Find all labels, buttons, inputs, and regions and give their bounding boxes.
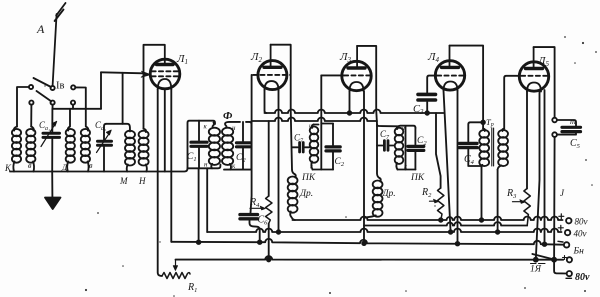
switch 1Я dot left xyxy=(534,258,538,262)
switch arm bottom xyxy=(37,91,52,101)
wire: top-left contact to coil K xyxy=(17,87,29,127)
capacitor C7 of PK2 (series) xyxy=(377,129,394,150)
wire: secondary bottom to bus C xyxy=(497,170,499,233)
terminal -Бн xyxy=(558,240,563,243)
bus 4 (switched -80v rail) xyxy=(176,256,564,260)
bus B (mid rail) xyxy=(364,222,527,226)
svg-text:Iв: Iв xyxy=(56,81,64,92)
band filter block 1 frame xyxy=(188,121,216,169)
wire: PK1 right frame riser to Л3 grid xyxy=(320,75,322,169)
svg-text:C3: C3 xyxy=(413,104,424,116)
wire: primary bottom to bus A xyxy=(481,166,483,220)
svg-text:н: н xyxy=(204,161,208,169)
wire: Л2 cathode left leg to rail H1 xyxy=(265,90,267,113)
coil D (pair 2 left) xyxy=(61,109,75,172)
switch 1Я arm xyxy=(532,254,554,260)
svg-text:C2: C2 xyxy=(335,157,345,168)
resistor R1 (horizontal, with wiper) xyxy=(162,260,197,294)
wire: Л5 heater mid leg down to bus D xyxy=(544,90,546,244)
junction dot R2 bottom xyxy=(439,218,443,222)
switch 1Я dot right (pivot) xyxy=(552,258,556,262)
coil of block 2 xyxy=(222,123,236,170)
junction dot xyxy=(496,230,500,234)
svg-text:ПК: ПК xyxy=(301,173,316,183)
resistor R2 xyxy=(421,187,444,220)
coupling bar above M coil xyxy=(106,124,130,132)
switch 1v contact top-right xyxy=(71,85,75,89)
svg-text:R3: R3 xyxy=(506,188,517,200)
wire: PK2 bottom bar xyxy=(398,169,416,171)
svg-text:Л5: Л5 xyxy=(537,55,549,68)
transformer Tr core xyxy=(492,128,494,166)
wire: tee down to coupling bar xyxy=(122,73,124,124)
capacitor C1 xyxy=(187,121,207,169)
wire: PK1 top bar xyxy=(314,124,334,125)
svg-text:80v: 80v xyxy=(575,272,590,283)
bus C (+40v rail) xyxy=(207,229,561,232)
resistor R4 with arrow (grid leak) xyxy=(249,121,272,224)
junction dot xyxy=(480,218,484,222)
svg-text:R1: R1 xyxy=(187,282,197,294)
junction dot xyxy=(197,240,201,244)
switch 1v contact bottom-right xyxy=(71,101,75,105)
capacitor C4 across primary xyxy=(460,122,484,166)
coil of PK1 xyxy=(309,123,318,171)
wire: Л1 cathode leg right to bus start xyxy=(170,90,172,242)
terminal +40v xyxy=(558,225,563,230)
capacitor C6 xyxy=(240,215,268,243)
tube U2 (Л2) xyxy=(250,45,290,90)
svg-text:н: н xyxy=(309,123,312,130)
wire: grid line to tube Л1 xyxy=(101,72,144,73)
wire: top-right contact over and down xyxy=(75,87,86,108)
svg-text:Тр: Тр xyxy=(486,117,494,128)
capacitor C5 with phones (т) xyxy=(557,117,581,150)
terminal 80v bottom xyxy=(567,271,572,276)
capacitor C2 of filter xyxy=(236,122,250,170)
variable capacitor Ca1 xyxy=(39,109,60,172)
wire: horizontal distribution y=108.8 xyxy=(53,108,102,110)
variable capacitor Ca2 xyxy=(95,120,112,172)
bus D (Бн rail) xyxy=(171,239,564,245)
svg-text:Л3: Л3 xyxy=(339,51,351,64)
capacitor C3 xyxy=(413,94,436,116)
svg-text:в: в xyxy=(28,161,32,170)
terminal circle on bus 4 xyxy=(563,256,567,260)
wire: block1 bottom bar xyxy=(188,165,221,169)
switch 1v contact top-left xyxy=(29,85,33,89)
junction dot xyxy=(277,230,281,234)
phone jack terminal top xyxy=(552,118,557,123)
grid arrowhead at tube Л1 xyxy=(141,71,150,77)
choke Dr1 xyxy=(288,174,313,220)
coil of PK2 xyxy=(395,125,408,171)
wire: PK1 bottom bar xyxy=(313,169,334,171)
svg-text:Cа₂: Cа₂ xyxy=(95,120,106,132)
switch 1v contact top-center xyxy=(51,86,55,90)
wire: rail H2 xyxy=(252,118,377,121)
wire: Л3 cathode left leg to rail H1 xyxy=(349,91,351,113)
resistor R3 xyxy=(506,188,530,226)
wire: bottom-left contact down to coil v1 xyxy=(30,105,32,127)
wire: ground stem xyxy=(51,172,53,198)
coil v1 (antenna coil pair 1 right) xyxy=(26,127,35,172)
wire: riser to tube grid line xyxy=(100,72,102,109)
wire: Л2 anode loop down to PK1 xyxy=(271,45,295,174)
wire: secondary top riser to Л5 grid xyxy=(504,76,519,129)
svg-text:80v: 80v xyxy=(575,217,588,227)
wire: Л3 cathode right leg down to bus xyxy=(363,91,365,243)
ground xyxy=(45,198,61,210)
wire: Л1 anode loop to coil N xyxy=(144,45,165,129)
svg-text:C7: C7 xyxy=(380,129,390,141)
choke Dr2 xyxy=(364,178,396,219)
svg-text:J: J xyxy=(560,188,565,198)
svg-text:т: т xyxy=(570,117,576,126)
wire: Л2 cathode right leg down to bus xyxy=(278,90,280,232)
svg-text:C2: C2 xyxy=(417,136,427,147)
tube U5 (Л5) xyxy=(519,47,549,91)
coil N (tuned anode pair right) xyxy=(138,129,149,186)
svg-text:Бн: Бн xyxy=(573,247,585,257)
svg-text:R4: R4 xyxy=(249,197,260,209)
switch 1v contact bottom-left xyxy=(29,101,33,105)
svg-text:Cа₁: Cа₁ xyxy=(39,120,50,132)
wire: center bottom contact elbow to ground stem xyxy=(52,105,54,109)
wire: Л2 grid riser xyxy=(251,75,252,213)
capacitor C7 of PK1 (series) xyxy=(292,133,310,153)
svg-text:Л4: Л4 xyxy=(427,51,439,64)
tube U1 (Л1) xyxy=(150,45,188,90)
wire: Л3 grid line from PK1 riser xyxy=(321,74,344,76)
wire: Л4 anode loop to transformer xyxy=(450,46,484,129)
switch 1v contact bottom-center xyxy=(51,101,55,105)
coil M (tuned anode pair left) xyxy=(119,131,135,186)
svg-text:А: А xyxy=(36,22,45,36)
coil K (antenna coil pair 1 left) xyxy=(4,127,21,174)
svg-text:1Я: 1Я xyxy=(530,265,542,275)
antenna A xyxy=(36,3,66,86)
wire: PK2 top bar xyxy=(377,126,415,128)
switch arm top xyxy=(34,78,52,87)
block 2 frame top xyxy=(226,122,241,123)
junction dot xyxy=(456,242,460,246)
wire: Л4 grid to C3 xyxy=(427,76,437,93)
junction dot xyxy=(362,242,366,246)
coil of block 1 xyxy=(204,123,220,169)
wire: block1 bottom drop to bus D xyxy=(198,168,200,242)
wire: bar left end down to Ca2 xyxy=(104,124,106,141)
wire: PK2 right frame xyxy=(405,126,407,170)
svg-text:C5: C5 xyxy=(570,138,581,150)
wire: block1 bottom drop to bus xyxy=(206,168,208,232)
svg-text:Ф: Ф xyxy=(223,110,233,122)
svg-text:к: к xyxy=(204,123,208,131)
wire: H1 drop to R2 xyxy=(436,113,441,188)
phone jack terminal bottom xyxy=(552,132,557,137)
wire: R4 bottom to bus 4 xyxy=(268,224,270,260)
junction dot xyxy=(267,258,271,262)
wire: Л5 cathode right leg down to switch dot xyxy=(536,92,540,260)
junction dot C3 to H1 xyxy=(425,111,429,115)
wire: Л4 cathode right leg down to bus xyxy=(457,91,459,244)
svg-text:Др.: Др. xyxy=(299,189,313,199)
junction dot C6 bottom xyxy=(258,240,262,244)
capacitor C2 of PK2 xyxy=(408,128,427,170)
tube U3 (Л3) xyxy=(339,46,372,91)
coil v2 (pair 2 right) xyxy=(81,109,93,172)
wire: jack bottom down to bus D xyxy=(553,137,556,260)
wire: Л1 middle lead xyxy=(164,89,166,172)
capacitor C2 of PK1 xyxy=(326,124,345,170)
svg-text:R2: R2 xyxy=(421,187,432,199)
wire: switch down to bottom terminal xyxy=(554,260,567,274)
junction dot xyxy=(449,230,453,234)
terminal +80v xyxy=(559,214,564,219)
svg-text:ПК: ПК xyxy=(410,173,425,183)
transformer Tr primary winding xyxy=(479,129,489,168)
wire: Л3 anode loop down to PK2 xyxy=(357,46,379,178)
svg-text:C2: C2 xyxy=(236,153,246,164)
svg-text:C1: C1 xyxy=(187,152,197,163)
bus A (+80v rail) xyxy=(293,217,563,220)
svg-text:в: в xyxy=(89,161,93,170)
transformer Tr secondary winding xyxy=(498,129,508,170)
svg-text:Л2: Л2 xyxy=(250,51,262,64)
wire: Л4 cathode left leg down to bus xyxy=(444,91,451,233)
svg-text:н: н xyxy=(232,124,236,132)
junction dot C4 top xyxy=(481,121,485,125)
wire: ground base line xyxy=(10,168,188,171)
svg-text:Др.: Др. xyxy=(382,189,396,199)
wire: block2 bottom bar xyxy=(224,169,251,171)
svg-text:40v: 40v xyxy=(574,229,587,239)
junction dot xyxy=(348,111,352,115)
wire: Л5 anode loop to phone jack xyxy=(534,47,555,118)
tube U4 (Л4) xyxy=(427,46,465,91)
svg-text:Н: Н xyxy=(138,176,146,186)
wire: Л5 cathode left leg to R3 xyxy=(526,92,528,189)
junction dot xyxy=(543,242,547,246)
svg-text:C4: C4 xyxy=(464,154,475,166)
wire: bottom-right contact drop xyxy=(72,105,74,109)
wire: rail H1 xyxy=(265,110,444,113)
svg-text:М: М xyxy=(119,176,128,186)
wire: Л1 cathode leg left to base and R1 xyxy=(158,90,162,276)
svg-text:Л1: Л1 xyxy=(176,53,188,66)
